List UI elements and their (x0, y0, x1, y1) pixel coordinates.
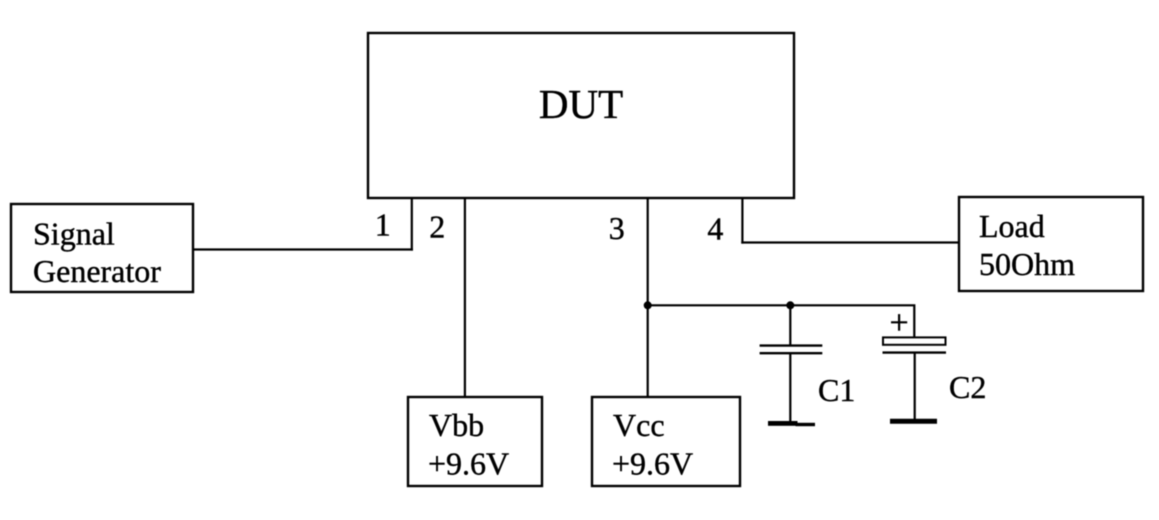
load box (959, 197, 1143, 291)
capacitor C2 plates (883, 337, 947, 352)
wire: pin 4 to load (741, 241, 959, 243)
svg-text:Signal: Signal (33, 216, 115, 252)
wire: signal generator to pin 1 (193, 248, 413, 250)
svg-text:50Ohm: 50Ohm (979, 246, 1075, 282)
svg-text:+9.6V: +9.6V (428, 446, 509, 482)
svg-text:C1: C1 (818, 372, 855, 408)
capacitor C1 plates (760, 346, 823, 354)
wire: C1 top lead (789, 305, 791, 345)
wire: pin 2 to Vbb (464, 198, 466, 397)
signal generator box (11, 204, 193, 292)
wire: pin 4 stub (741, 198, 743, 244)
capacitor C2 polarity plus (891, 314, 907, 331)
svg-text:2: 2 (429, 209, 445, 245)
ground under C2 (890, 419, 937, 424)
svg-text:1: 1 (375, 207, 391, 243)
wire: decoupling rail from pin 3 node to C2 (648, 305, 915, 338)
svg-text:DUT: DUT (539, 81, 623, 127)
wire: C1 bottom lead (789, 353, 791, 422)
DUT box (368, 33, 794, 198)
ground under C1 (768, 421, 815, 426)
node: junction above C1 (786, 301, 794, 309)
wire: C2 bottom lead (914, 353, 916, 419)
node: junction on pin 3 wire (644, 301, 652, 309)
svg-text:4: 4 (707, 211, 723, 247)
wire: pin 3 to Vcc (647, 198, 649, 397)
svg-text:Generator: Generator (33, 253, 161, 289)
svg-text:+9.6V: +9.6V (612, 446, 693, 482)
svg-text:3: 3 (609, 210, 625, 246)
Vcc box (592, 397, 740, 486)
svg-text:C2: C2 (949, 369, 986, 405)
svg-text:Load: Load (979, 208, 1045, 244)
wire: pin 1 stub (411, 198, 413, 251)
Vbb box (408, 397, 542, 486)
svg-text:Vcc: Vcc (613, 407, 665, 443)
svg-text:Vbb: Vbb (429, 407, 484, 443)
